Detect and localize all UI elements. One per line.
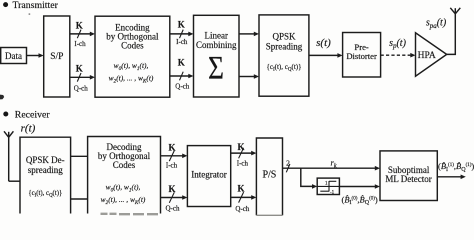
svg-text:K: K [237, 183, 244, 193]
svg-text:-1: -1 [330, 191, 335, 196]
block QPSK De-spreading [20, 137, 71, 213]
block Encoding by Orthogonal Codes [95, 16, 170, 97]
svg-text:K: K [178, 58, 185, 68]
svg-text:Spreading: Spreading [266, 42, 303, 52]
block QPSK Spreading [259, 15, 309, 96]
svg-text:Data: Data [5, 51, 22, 61]
scan artifact: gray smear bottom center [101, 213, 162, 216]
svg-text:Q-ch: Q-ch [175, 82, 189, 90]
svg-text:ML Detector: ML Detector [385, 174, 431, 184]
svg-text:Codes: Codes [121, 41, 144, 51]
block Decoding by Orthogonal Codes [88, 137, 161, 214]
wire Decoding to Integrator I-ch (K bus) [161, 142, 188, 169]
slicer (hard decision) box [317, 178, 339, 196]
block Suboptimal ML Detector [380, 151, 437, 201]
block Integrator [187, 146, 230, 207]
svg-text:S/P: S/P [50, 52, 63, 62]
header Transmitter [3, 0, 58, 11]
svg-text:K: K [76, 21, 83, 31]
svg-text:Σ: Σ [208, 51, 224, 87]
wire Integrator to P/S Q-ch (K bus) [231, 183, 257, 213]
svg-text:I-ch: I-ch [237, 159, 249, 167]
wire HPA to antenna [447, 14, 456, 55]
svg-text:sp(t): sp(t) [389, 38, 407, 50]
svg-text:I-ch: I-ch [74, 40, 86, 48]
block P/S [256, 138, 282, 215]
wire QPSK De-spreading to Decoding (lower) [71, 198, 88, 200]
block S/P [44, 16, 70, 97]
wire Linear Combining to QPSK Spreading (upper) [239, 32, 259, 37]
wire Linear Combining to QPSK Spreading (lower) [239, 74, 259, 79]
svg-text:Integrator: Integrator [191, 170, 226, 180]
wire Integrator to P/S I-ch (K bus) [231, 142, 257, 168]
block Linear Combining (summer) [194, 15, 240, 97]
wire Encoder to Linear Combining Q-ch (K bus) [170, 58, 194, 91]
amplifier HPA [416, 33, 447, 76]
svg-text:I-ch: I-ch [166, 162, 178, 170]
svg-text:K: K [76, 64, 83, 74]
block Pre-Distorter [343, 33, 381, 78]
wire s_p(t) Pre-Distorter to HPA (dashed) [381, 38, 416, 58]
wire ML detector output [437, 175, 466, 180]
svg-text:HPA: HPA [418, 51, 436, 61]
svg-text:Receiver: Receiver [15, 110, 51, 121]
svg-text:QPSK De-: QPSK De- [26, 155, 65, 165]
svg-text:I-ch: I-ch [176, 38, 188, 46]
wire QPSK De-spreading to Decoding (upper) [71, 155, 88, 157]
wire slicer to ML detector [339, 184, 380, 189]
block Data [1, 48, 27, 64]
svg-text:K: K [168, 184, 175, 194]
wire Data to S/P [27, 53, 44, 58]
wire antenna to QPSK De-spreading [9, 180, 20, 182]
svg-text:spa(t): spa(t) [426, 18, 447, 30]
scan artifact: tiny speck [29, 13, 31, 14]
scan artifact: dark blob left edge [0, 95, 4, 100]
svg-text:Combining: Combining [196, 40, 237, 50]
wire P/S to ML detector (r_k, width 2) [283, 158, 381, 173]
svg-text:K: K [237, 142, 244, 152]
antenna (receive) [4, 131, 13, 181]
svg-text:QPSK: QPSK [272, 32, 296, 42]
svg-text:s(t): s(t) [316, 37, 331, 49]
svg-text:Transmitter: Transmitter [13, 0, 59, 11]
svg-text:spreading: spreading [28, 165, 63, 175]
svg-text:2: 2 [286, 159, 290, 168]
wire S/P to Encoder I-ch (K bus) [70, 21, 95, 48]
svg-text:K: K [178, 19, 185, 29]
svg-text:Q-ch: Q-ch [74, 84, 88, 92]
svg-text:P/S: P/S [262, 170, 276, 181]
antenna (transmit) [450, 8, 460, 14]
wire Decoding to Integrator Q-ch (K bus) [161, 184, 188, 213]
wire Encoder to Linear Combining I-ch (K bus) [170, 19, 194, 45]
svg-text:Codes: Codes [113, 160, 136, 170]
svg-text:r(t): r(t) [21, 123, 36, 135]
wire s(t) QPSK Spreading to Pre-Distorter [309, 37, 343, 58]
svg-text:Q-ch: Q-ch [166, 205, 180, 213]
header Receiver [3, 110, 50, 121]
svg-text:Distorter: Distorter [346, 51, 377, 61]
svg-text:K: K [168, 142, 175, 152]
svg-text:Q-ch: Q-ch [235, 205, 249, 213]
wire junction branch down to slicer [301, 168, 317, 189]
wire S/P to Encoder Q-ch (K bus) [70, 64, 95, 93]
